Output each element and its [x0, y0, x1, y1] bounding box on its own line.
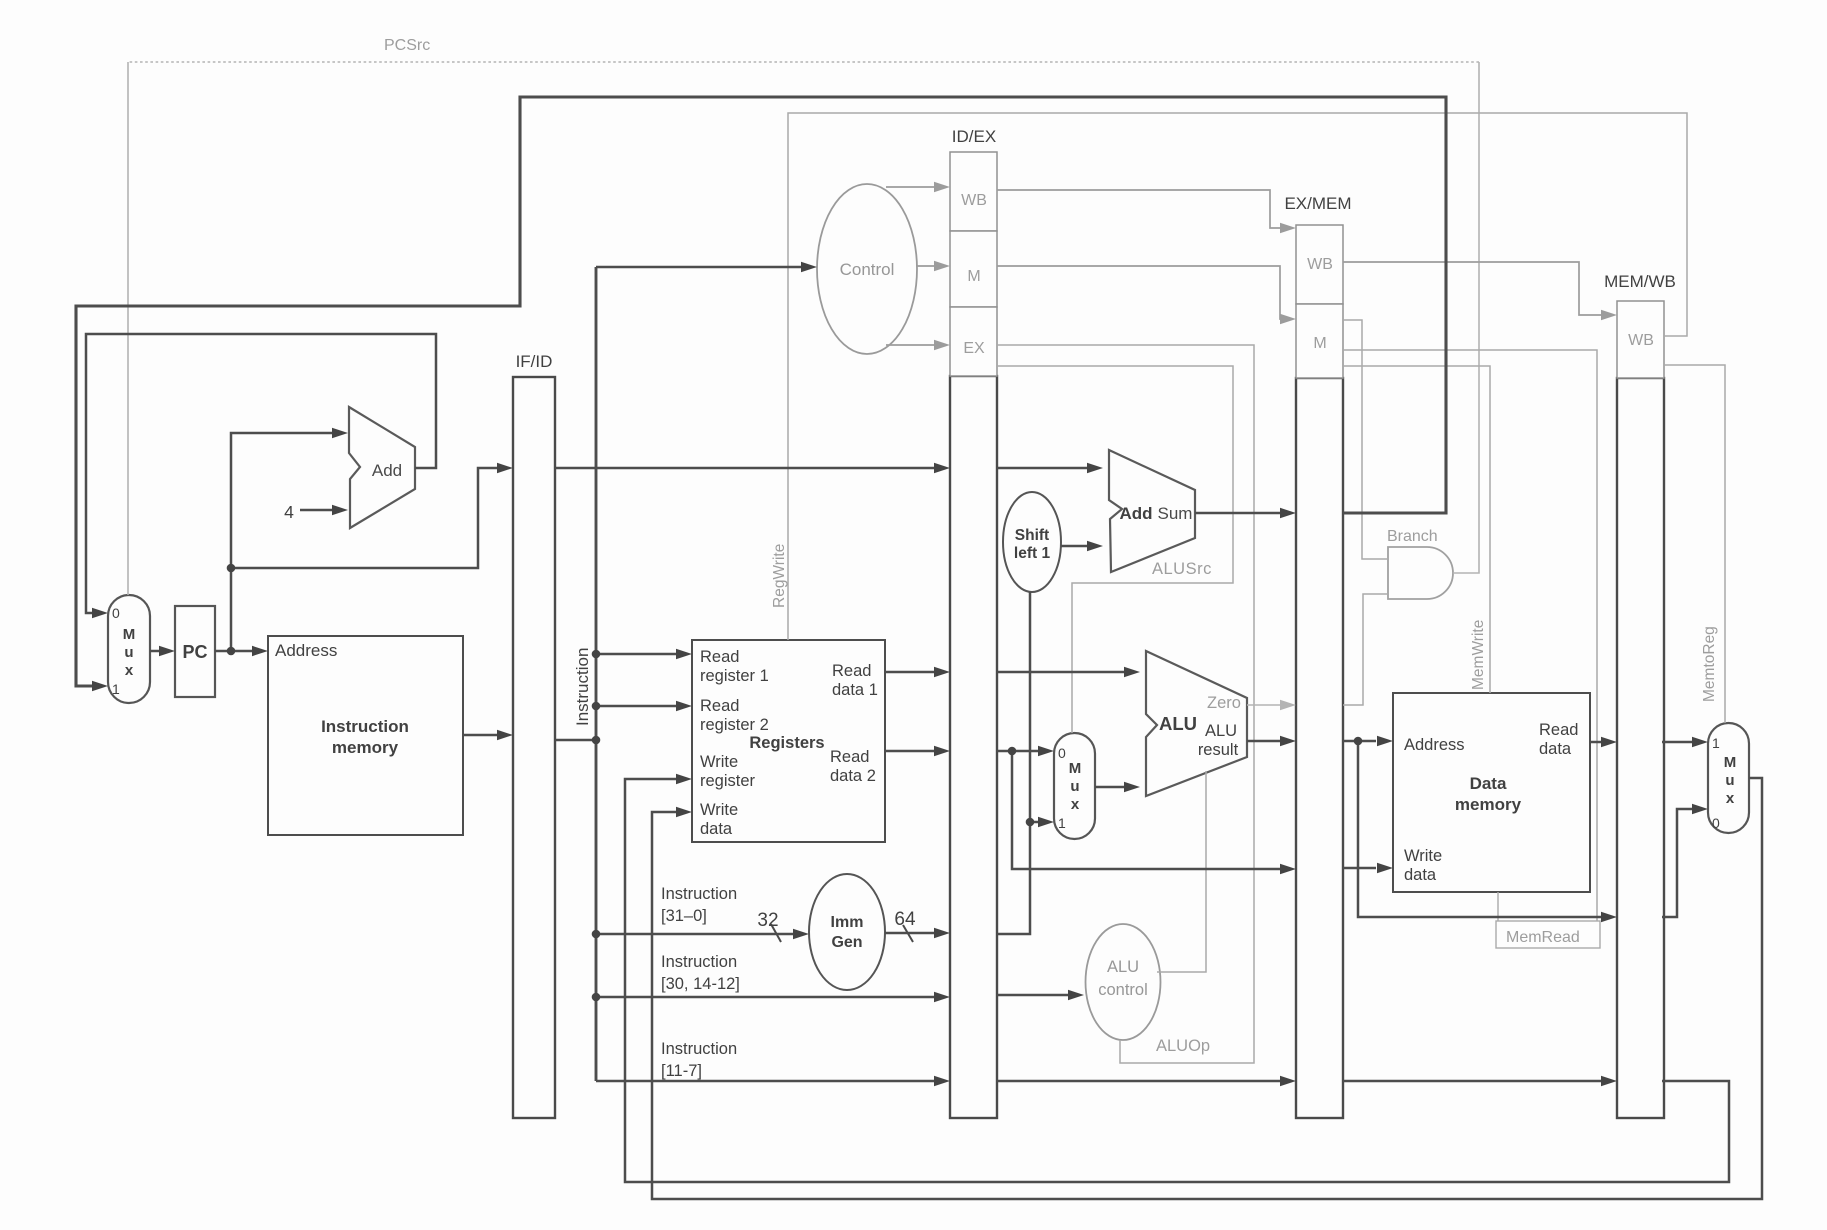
- wire MemtoReg (MEM/WB WB to mux M3 select): [1664, 365, 1725, 723]
- svg-text:u: u: [1725, 772, 1734, 789]
- svg-text:0: 0: [112, 605, 120, 621]
- wire M control ID/EX to EX/MEM: [997, 266, 1296, 324]
- wire control to ID/EX EX: [886, 340, 950, 350]
- wire control to ID/EX M: [917, 261, 950, 271]
- wire mux M1 to PC: [150, 646, 175, 656]
- label ALU result: [1198, 722, 1239, 759]
- wire read data 2 to ID/EX: [885, 746, 950, 756]
- junction instruction bus read register 2: [592, 702, 601, 711]
- svg-text:EX: EX: [963, 340, 985, 357]
- wire MemRead (EX/MEM M to data memory): [1343, 350, 1597, 921]
- svg-text:RegWrite: RegWrite: [771, 544, 788, 608]
- wire write register number EX/MEM to MEM/WB: [1343, 1076, 1617, 1086]
- svg-text:M: M: [1313, 335, 1326, 352]
- immediate generator Imm Gen: [809, 874, 885, 990]
- svg-text:data: data: [700, 820, 733, 838]
- wire Imm Gen to ID/EX: [885, 928, 950, 938]
- junction ALU result split: [1354, 737, 1363, 746]
- wire WB control EX/MEM to MEM/WB: [1343, 262, 1617, 320]
- svg-text:Add: Add: [1119, 504, 1152, 523]
- wire read data 2 to EX/MEM write data: [1012, 751, 1296, 874]
- svg-text:x: x: [1726, 790, 1735, 807]
- svg-text:data: data: [1539, 740, 1572, 758]
- svg-text:WB: WB: [1628, 332, 1654, 349]
- svg-text:ALU: ALU: [1205, 722, 1237, 740]
- svg-text:Add: Add: [372, 461, 402, 480]
- control unit U-Control: [817, 184, 917, 354]
- svg-text:Write: Write: [700, 801, 738, 819]
- register PC: [175, 606, 215, 697]
- svg-text:M: M: [967, 268, 980, 285]
- ALU control unit: [1086, 924, 1161, 1040]
- svg-text:[30, 14-12]: [30, 14-12]: [661, 975, 740, 993]
- junction instruction bus funct: [592, 993, 601, 1002]
- wire RegWrite (MEM/WB WB to registers): [788, 113, 1687, 640]
- svg-text:0: 0: [1712, 815, 1720, 831]
- svg-text:Sum: Sum: [1158, 504, 1193, 523]
- wire Zero flag ALU to EX/MEM: [1247, 700, 1296, 710]
- wire PC to Add and IF/ID (vertical): [231, 428, 348, 651]
- svg-text:MEM/WB: MEM/WB: [1604, 272, 1676, 291]
- wire shift left 1 to Add Sum: [1061, 541, 1103, 551]
- wire branch target feedback (EX/MEM to mux M1 input 1): [76, 97, 1446, 691]
- svg-text:data 1: data 1: [832, 681, 878, 699]
- svg-text:Instruction: Instruction: [661, 885, 737, 903]
- svg-text:Write: Write: [700, 753, 738, 771]
- svg-text:Read: Read: [832, 662, 871, 680]
- wire instruction to read register 2: [596, 701, 692, 711]
- registers block: [692, 640, 885, 842]
- wire ALUSrc (ID/EX EX to mux M2 select): [997, 366, 1233, 733]
- wire instruction IF/ID to bus: [555, 739, 596, 742]
- wire read data MEM/WB to mux M3 input 1: [1662, 737, 1708, 747]
- svg-text:IF/ID: IF/ID: [516, 352, 553, 371]
- wire PC value IF/ID to ID/EX: [555, 463, 950, 473]
- wire ALUOp (ID/EX EX to ALU control): [997, 345, 1254, 1063]
- wire instruction [30,14-12] funct to ID/EX: [596, 992, 950, 1002]
- label Instruction [31-0]: [661, 885, 737, 925]
- adder Add (PC+4): [349, 407, 415, 528]
- junction PC to IF/ID branch: [227, 564, 236, 573]
- mux M3 (write-back mux): [1708, 723, 1749, 833]
- svg-text:Address: Address: [275, 641, 337, 660]
- svg-text:Read: Read: [1539, 721, 1578, 739]
- svg-text:Instruction: Instruction: [661, 953, 737, 971]
- wire instruction bus (vertical): [595, 267, 598, 1081]
- wire funct ID/EX to ALU control: [997, 990, 1084, 1000]
- wire write register number ID/EX to EX/MEM: [997, 1076, 1296, 1086]
- svg-text:x: x: [125, 662, 134, 679]
- junction PC output: [227, 647, 236, 656]
- svg-text:u: u: [124, 644, 133, 661]
- wire WB control ID/EX to EX/MEM: [997, 190, 1296, 233]
- AND gate U-branch: [1387, 528, 1453, 599]
- svg-text:ID/EX: ID/EX: [952, 127, 996, 146]
- svg-text:ALU: ALU: [1159, 713, 1197, 734]
- wire instruction [11-7] to ID/EX: [596, 1076, 950, 1086]
- wire immediate ID/EX to mux M2 input 1: [997, 592, 1030, 934]
- wire instruction to control: [596, 262, 817, 272]
- svg-text:control: control: [1098, 981, 1148, 999]
- instruction memory: [268, 636, 463, 835]
- label Instruction [11-7]: [661, 1040, 737, 1080]
- svg-text:x: x: [1071, 796, 1080, 813]
- svg-text:WB: WB: [1307, 256, 1333, 273]
- svg-text:memory: memory: [332, 738, 399, 757]
- svg-text:[11-7]: [11-7]: [661, 1062, 702, 1080]
- shift left 1 unit: [1003, 492, 1061, 592]
- wire PC to instruction memory address: [215, 646, 268, 656]
- wire PC value to IF/ID: [231, 463, 513, 568]
- wire control to ID/EX WB: [886, 182, 950, 192]
- svg-text:Branch: Branch: [1387, 528, 1438, 545]
- svg-text:ALU: ALU: [1107, 958, 1139, 976]
- wire ALU result to EX/MEM: [1247, 736, 1296, 746]
- svg-text:result: result: [1198, 741, 1239, 759]
- svg-text:[31–0]: [31–0]: [661, 907, 707, 925]
- svg-text:1: 1: [112, 681, 120, 697]
- svg-text:MemRead: MemRead: [1506, 929, 1580, 946]
- wire immediate branch to mux M2: [1030, 817, 1054, 827]
- svg-text:Read: Read: [830, 748, 869, 766]
- junction instruction bus IF/ID tap: [592, 736, 601, 745]
- svg-text:Instruction: Instruction: [321, 717, 409, 736]
- svg-text:1: 1: [1058, 815, 1066, 831]
- svg-text:Control: Control: [840, 260, 895, 279]
- wire Branch control (EX/MEM M to AND gate): [1343, 320, 1388, 559]
- svg-text:PC: PC: [182, 642, 207, 662]
- wire PCSrc drop to mux M1 select: [127, 62, 129, 595]
- svg-text:ALUSrc: ALUSrc: [1152, 560, 1212, 578]
- pipeline register MEM/WB: [1604, 272, 1676, 1118]
- svg-text:4: 4: [284, 502, 294, 522]
- svg-text:64: 64: [894, 909, 916, 930]
- svg-text:Address: Address: [1404, 736, 1465, 754]
- label Instruction [30, 14-12]: [661, 953, 740, 993]
- svg-text:register 2: register 2: [700, 716, 769, 734]
- svg-text:MemWrite: MemWrite: [1470, 620, 1487, 690]
- svg-text:Write: Write: [1404, 847, 1442, 865]
- wire ALU result EX/MEM to data memory address: [1343, 736, 1393, 746]
- wire instruction to read register 1: [596, 649, 692, 659]
- wire MemWrite (EX/MEM M to data memory): [1343, 366, 1490, 693]
- svg-text:data: data: [1404, 866, 1437, 884]
- svg-text:register 1: register 1: [700, 667, 769, 685]
- wire Add Sum result to EX/MEM: [1195, 508, 1296, 518]
- svg-text:register: register: [700, 772, 756, 790]
- ALU: [1146, 651, 1247, 796]
- svg-text:PCSrc: PCSrc: [384, 37, 430, 54]
- svg-text:32: 32: [757, 910, 778, 931]
- wire instruction memory to IF/ID: [463, 730, 513, 740]
- wire read data 1 to ID/EX: [885, 667, 950, 677]
- wire PC+4 feedback (Add to mux M1 input 0): [86, 334, 436, 618]
- svg-text:Instruction: Instruction: [573, 648, 592, 726]
- wire read data 2 ID/EX to mux M2 input 0: [997, 746, 1054, 756]
- svg-text:Gen: Gen: [831, 934, 862, 951]
- wire PCSrc (AND output to mux M1 select): [1453, 62, 1479, 573]
- wire write data loop (mux M3 to registers): [652, 778, 1762, 1199]
- junction read data 2 split: [1008, 747, 1017, 756]
- junction instruction bus imm gen: [592, 930, 601, 939]
- svg-text:data 2: data 2: [830, 767, 876, 785]
- mux M2 (ALU operand mux): [1054, 733, 1095, 839]
- svg-text:Imm: Imm: [831, 914, 864, 931]
- mux M1 (PC source mux): [108, 595, 150, 703]
- svg-text:M: M: [123, 626, 136, 643]
- svg-text:0: 0: [1058, 745, 1066, 761]
- wire ALU result MEM/WB to mux M3 input 0: [1662, 804, 1708, 917]
- svg-text:left 1: left 1: [1014, 545, 1051, 562]
- svg-text:u: u: [1070, 778, 1079, 795]
- wire ALU result bypass to MEM/WB: [1358, 741, 1617, 922]
- svg-text:MemtoReg: MemtoReg: [1701, 626, 1718, 702]
- slash 32-bit width mark: [771, 924, 781, 942]
- wire ALU control output to ALU: [1157, 771, 1206, 972]
- wire instruction [31-0] to Imm Gen: [596, 929, 809, 939]
- wire constant 4 to Add: [300, 505, 348, 515]
- svg-text:M: M: [1724, 754, 1737, 771]
- wire read data memory to MEM/WB: [1590, 737, 1617, 747]
- svg-text:Read: Read: [700, 648, 739, 666]
- svg-text:memory: memory: [1455, 795, 1522, 814]
- pipeline register EX/MEM: [1284, 194, 1351, 1118]
- svg-text:Registers: Registers: [749, 734, 824, 752]
- junction instruction bus read register 1: [592, 650, 601, 659]
- wire mux M2 to ALU: [1095, 782, 1140, 792]
- svg-text:Instruction: Instruction: [661, 1040, 737, 1058]
- svg-text:Data: Data: [1470, 774, 1507, 793]
- svg-text:Shift: Shift: [1015, 527, 1049, 544]
- pipeline register IF/ID: [513, 352, 555, 1118]
- junction immediate split: [1026, 818, 1035, 827]
- wire PC value ID/EX to Add Sum: [997, 463, 1103, 473]
- slash 64-bit width mark: [903, 925, 913, 942]
- wire read data 1 ID/EX to ALU: [997, 667, 1140, 677]
- wire PCSrc top run (dotted): [128, 61, 1479, 63]
- wire write register number loop (MEM/WB to registers): [625, 774, 1729, 1182]
- wire write data EX/MEM to data memory: [1343, 863, 1393, 873]
- adder Add Sum (branch target): [1109, 450, 1195, 572]
- wire Zero flag EX/MEM to AND gate: [1343, 594, 1388, 705]
- svg-text:ALUOp: ALUOp: [1156, 1037, 1210, 1055]
- svg-text:1: 1: [1712, 735, 1720, 751]
- svg-text:EX/MEM: EX/MEM: [1284, 194, 1351, 213]
- svg-text:Read: Read: [700, 697, 739, 715]
- pipeline register ID/EX: [950, 127, 997, 1118]
- svg-text:WB: WB: [961, 192, 987, 209]
- svg-text:Zero: Zero: [1207, 694, 1241, 712]
- data memory: [1393, 693, 1590, 892]
- svg-text:M: M: [1069, 760, 1082, 777]
- label MemRead: [1496, 892, 1600, 948]
